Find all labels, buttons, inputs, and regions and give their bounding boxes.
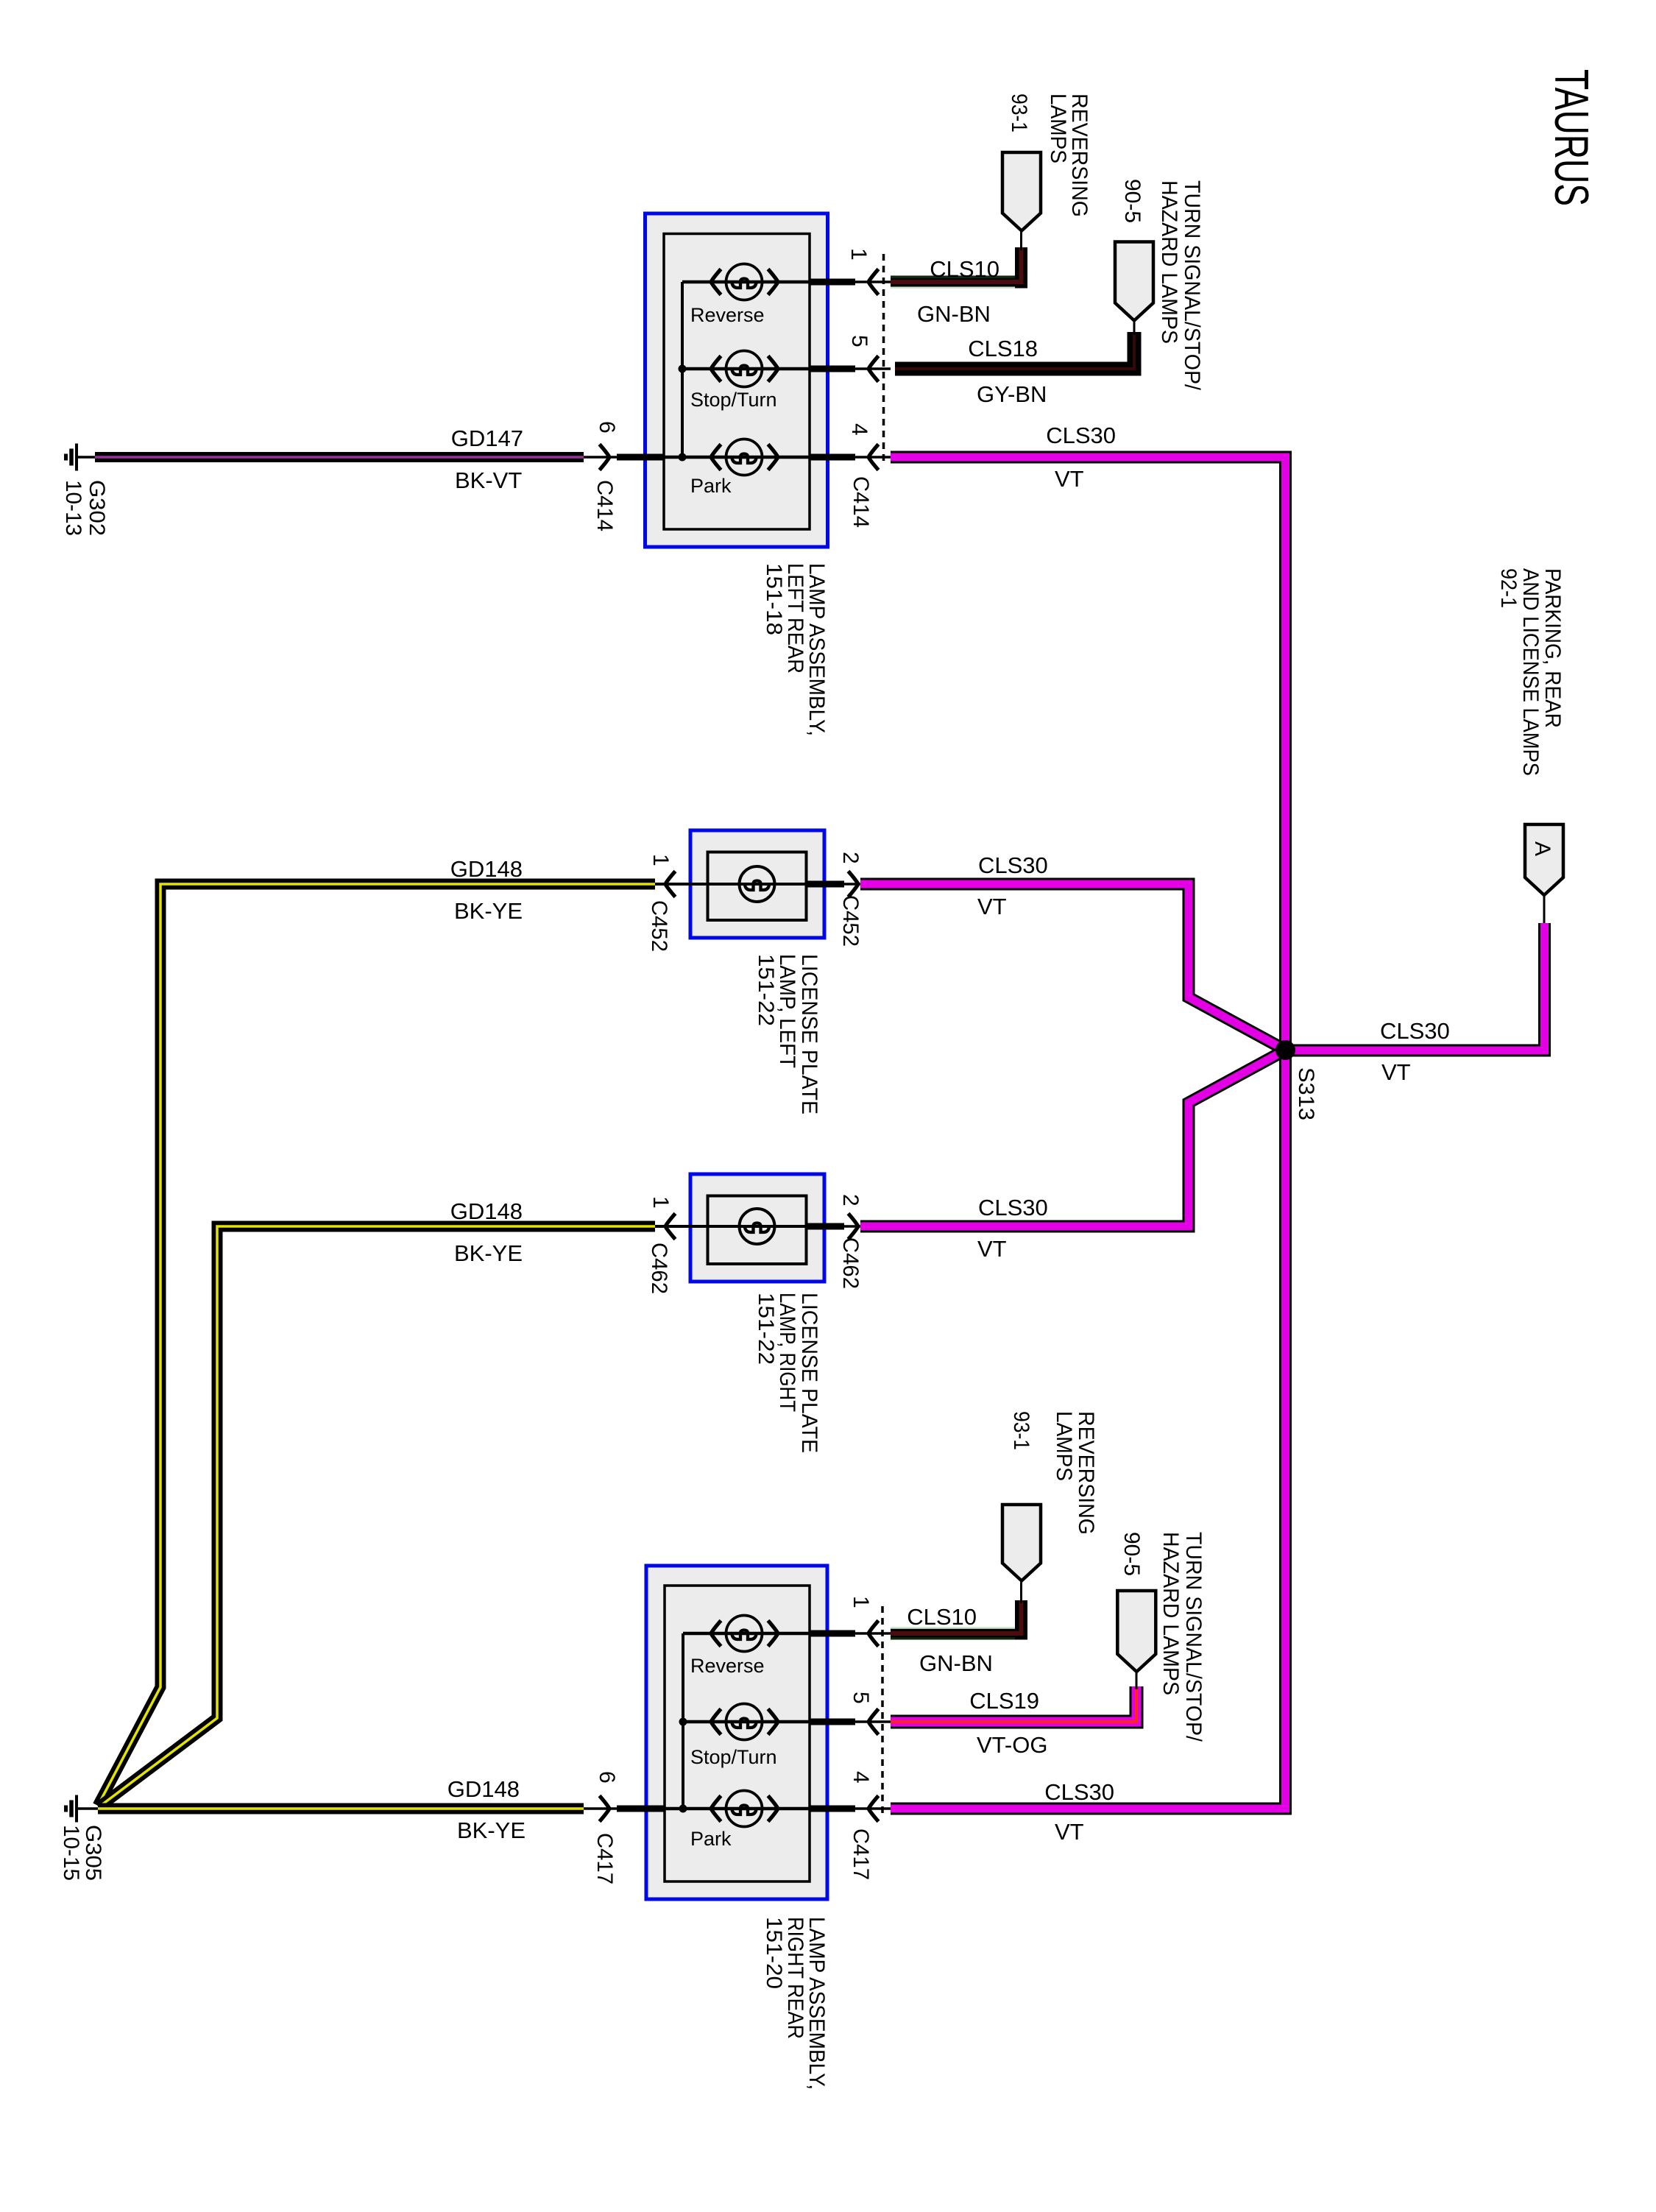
svg-text:C452: C452 xyxy=(838,895,863,947)
off-page banner REVERSING LAMPS 93-1 (top) xyxy=(1002,152,1041,231)
svg-text:CLS10: CLS10 xyxy=(907,1604,977,1630)
thin lead through connector C417 row stop/turn xyxy=(855,1720,891,1723)
svg-text:HAZARD LAMPS: HAZARD LAMPS xyxy=(1158,1532,1183,1695)
splice S313 dot xyxy=(1275,1040,1295,1060)
svg-text:BK-YE: BK-YE xyxy=(454,1240,523,1266)
ground label G302 10-13 xyxy=(61,480,109,536)
wire GD148 BK-YE from license lamp left to G305 xyxy=(98,884,655,1806)
off-page banner REVERSING LAMPS 93-1 (bottom) xyxy=(1002,1505,1041,1581)
pin stub stop/turn right side xyxy=(810,366,855,372)
svg-text:VT: VT xyxy=(1055,1819,1084,1845)
wire CLS10 green edge line (bottom) xyxy=(891,1627,1015,1629)
svg-text:2: 2 xyxy=(838,1194,863,1206)
thin lead through connector C414 row reverse xyxy=(855,280,891,283)
svg-text:CLS10: CLS10 xyxy=(930,256,999,282)
svg-text:Stop/Turn: Stop/Turn xyxy=(690,389,777,411)
svg-text:GD148: GD148 xyxy=(450,1198,523,1224)
svg-text:TAURUS: TAURUS xyxy=(1545,69,1599,206)
svg-text:4: 4 xyxy=(847,423,871,436)
ground G305 symbol xyxy=(66,1795,77,1823)
license plate lamp left: outer blue box xyxy=(690,830,824,938)
lamp assembly left rear: inner case rectangle xyxy=(664,234,810,530)
bulb stop/turn right arrow xyxy=(768,356,779,382)
license lamp left row line xyxy=(655,883,807,886)
svg-text:10-15: 10-15 xyxy=(59,1825,83,1881)
junction dot park (right rear) xyxy=(679,1805,687,1813)
bulb row line stop/turn (right rear) xyxy=(683,1720,810,1724)
svg-text:C414: C414 xyxy=(592,480,617,531)
connector arrow C417 pin row park xyxy=(868,1796,879,1822)
junction dot stop/turn (left rear) xyxy=(679,365,687,373)
lamp assembly left rear: outer blue box xyxy=(645,213,828,547)
bulb park right arrow (right rear) xyxy=(768,1796,779,1822)
connector arrow C462 pin 1 xyxy=(665,1214,676,1240)
svg-text:BK-VT: BK-VT xyxy=(455,467,522,493)
bulb license lamp left xyxy=(740,866,775,902)
bulb row line park (left rear) xyxy=(664,456,810,459)
bulb reverse left arrow (right rear) xyxy=(711,1621,721,1647)
svg-text:BK-YE: BK-YE xyxy=(457,1817,526,1843)
svg-text:1: 1 xyxy=(648,1196,673,1209)
pin stub C462 pin 2 xyxy=(807,1223,845,1230)
ground G302 symbol xyxy=(66,444,77,471)
license lamp right row line xyxy=(655,1225,807,1228)
bulb reverse left arrow xyxy=(711,269,721,295)
bulb park (right rear) xyxy=(726,1791,762,1827)
connector arrow C414 pin row stop/turn xyxy=(868,356,879,382)
svg-text:VT: VT xyxy=(977,1236,1007,1262)
svg-text:6: 6 xyxy=(595,1771,619,1784)
svg-text:GN-BN: GN-BN xyxy=(919,1650,993,1676)
svg-text:AND LICENSE LAMPS: AND LICENSE LAMPS xyxy=(1518,568,1543,776)
connector arrow C452 pin 1 xyxy=(665,872,676,897)
svg-text:5: 5 xyxy=(847,335,871,347)
junction dot stop/turn (right rear) xyxy=(679,1718,687,1726)
svg-text:GN-BN: GN-BN xyxy=(917,301,991,327)
internal bus wire joining bulbs (left rear) xyxy=(681,282,684,457)
connector arrow C417 pin row reverse xyxy=(868,1621,879,1647)
svg-text:1: 1 xyxy=(849,1596,873,1608)
svg-text:90-5: 90-5 xyxy=(1119,1532,1144,1576)
svg-text:151-20: 151-20 xyxy=(762,1917,786,1989)
thin lead through connector C417 row park xyxy=(855,1807,891,1810)
bulb stop/turn left arrow (right rear) xyxy=(711,1709,721,1735)
svg-text:S313: S313 xyxy=(1294,1067,1318,1120)
svg-text:TURN SIGNAL/STOP/: TURN SIGNAL/STOP/ xyxy=(1180,180,1204,391)
wire CLS10 GN-BN (right rear reversing feed) xyxy=(891,1600,1022,1633)
svg-text:CLS30: CLS30 xyxy=(978,852,1048,878)
svg-text:CLS30: CLS30 xyxy=(1044,1779,1114,1805)
svg-text:GD148: GD148 xyxy=(450,856,523,882)
bulb stop/turn (left rear) xyxy=(726,351,762,387)
svg-text:LAMPS: LAMPS xyxy=(1052,1411,1076,1481)
svg-text:C414: C414 xyxy=(849,476,873,528)
svg-text:5: 5 xyxy=(849,1692,873,1704)
bulb row line park (right rear) xyxy=(665,1807,810,1811)
bulb license lamp right xyxy=(740,1209,775,1244)
component label LAMP ASSEMBLY, RIGHT REAR 151-20 xyxy=(762,1917,829,2090)
label REVERSING LAMPS 93-1 (bottom) xyxy=(1009,1411,1098,1535)
svg-text:VT: VT xyxy=(1381,1059,1411,1085)
lamp assembly right rear: inner case rectangle xyxy=(665,1586,810,1881)
svg-text:Park: Park xyxy=(690,1828,732,1850)
bulb stop/turn left arrow xyxy=(711,356,721,382)
svg-text:BK-YE: BK-YE xyxy=(454,898,523,924)
label REVERSING LAMPS 93-1 (top) xyxy=(1007,93,1091,217)
pin stub stop/turn right side (right rear) xyxy=(810,1719,855,1725)
svg-text:6: 6 xyxy=(595,421,619,434)
svg-text:4: 4 xyxy=(849,1771,873,1784)
ground label G305 10-15 xyxy=(59,1825,105,1881)
bulb stop/turn right arrow (right rear) xyxy=(768,1709,779,1735)
svg-text:VT: VT xyxy=(977,894,1007,919)
bulb park left arrow xyxy=(711,445,721,470)
svg-text:10-13: 10-13 xyxy=(61,480,85,536)
connector arrow C462 pin 2 xyxy=(849,1214,859,1240)
lamp assembly right rear: outer blue box xyxy=(646,1566,827,1899)
svg-text:LICENSE PLATE: LICENSE PLATE xyxy=(797,954,821,1114)
label TURN SIGNAL/STOP/ HAZARD LAMPS 90-5 (top) xyxy=(1120,179,1204,391)
lead from turn signal banner to CLS18 xyxy=(1133,321,1136,336)
thin lead through connector C417 row reverse xyxy=(855,1632,891,1635)
wire CLS30 VT trunk: top park feed, vertical trunk, bottom park feed xyxy=(891,457,1286,1809)
connector C417 dashed mating line xyxy=(881,1606,884,1818)
component label LICENSE PLATE LAMP, RIGHT 151-22 xyxy=(754,1293,821,1453)
svg-text:VT-OG: VT-OG xyxy=(977,1732,1047,1758)
svg-text:CLS30: CLS30 xyxy=(1046,423,1116,448)
connector arrow C417 pin 6 xyxy=(600,1796,610,1822)
pin stub park right side xyxy=(810,454,855,461)
thin lead through connector C414 row stop/turn xyxy=(855,367,891,370)
component label LAMP ASSEMBLY, LEFT REAR 151-18 xyxy=(762,563,829,736)
wire CLS30 VT from license lamp right to splice S313 xyxy=(860,1050,1286,1227)
connector arrow C414 pin row park xyxy=(868,445,879,470)
svg-text:Stop/Turn: Stop/Turn xyxy=(690,1746,777,1768)
off-page banner A (parking rear and license lamps) xyxy=(1525,824,1563,895)
wire CLS30 VT from banner A to splice S313 xyxy=(1290,923,1545,1050)
svg-text:Reverse: Reverse xyxy=(690,304,765,326)
bulb park left arrow (right rear) xyxy=(711,1796,721,1822)
wire GD148 BK-YE from license lamp right to G305 xyxy=(99,1226,655,1807)
svg-text:90-5: 90-5 xyxy=(1120,179,1144,223)
component label LICENSE PLATE LAMP, LEFT 151-22 xyxy=(754,954,821,1114)
internal bus wire joining bulbs (right rear) xyxy=(682,1633,684,1809)
bulb park (left rear) xyxy=(726,439,762,476)
off-page banner TURN SIGNAL/STOP/HAZARD LAMPS 90-5 (bottom) xyxy=(1117,1591,1156,1672)
svg-text:93-1: 93-1 xyxy=(1009,1411,1033,1450)
svg-text:151-22: 151-22 xyxy=(754,954,778,1026)
bulb row line reverse (left rear) xyxy=(682,280,810,284)
connector arrow C414 pin row reverse xyxy=(868,269,879,295)
svg-text:REVERSING: REVERSING xyxy=(1074,1411,1098,1535)
svg-text:C462: C462 xyxy=(838,1237,863,1289)
svg-text:LAMPS: LAMPS xyxy=(1046,93,1070,163)
svg-text:CLS19: CLS19 xyxy=(969,1688,1039,1714)
connector arrow C452 pin 2 xyxy=(849,872,859,897)
wire GD148 BK-YE ground wire (right rear) xyxy=(98,1803,584,1815)
bulb row line reverse (right rear) xyxy=(683,1632,810,1636)
label PARKING, REAR AND LICENSE LAMPS 92-1 xyxy=(1496,568,1565,776)
connector arrow C414 pin 6 xyxy=(600,445,610,470)
bulb park right arrow xyxy=(768,445,779,470)
svg-text:93-1: 93-1 xyxy=(1007,93,1031,132)
svg-text:1: 1 xyxy=(846,248,871,261)
svg-text:C417: C417 xyxy=(592,1833,617,1884)
pin stub C452 pin 2 xyxy=(807,881,845,888)
pin 6 stub into box (left rear) xyxy=(584,456,664,459)
wire CLS18 GY-BN (left rear stop/turn feed) xyxy=(895,332,1134,369)
license plate lamp right: inner case rectangle xyxy=(708,1196,807,1265)
off-page banner TURN SIGNAL/STOP/HAZARD LAMPS 90-5 (top) xyxy=(1115,242,1153,321)
pin stub park right side (right rear) xyxy=(810,1806,855,1812)
svg-text:LICENSE PLATE: LICENSE PLATE xyxy=(797,1293,821,1453)
svg-text:CLS30: CLS30 xyxy=(1380,1018,1450,1044)
license plate lamp left: inner case rectangle xyxy=(708,852,807,921)
pin stub reverse right side (right rear) xyxy=(810,1630,855,1637)
ground G302 lead line xyxy=(77,456,97,459)
label TURN SIGNAL/STOP/ HAZARD LAMPS 90-5 (bottom) xyxy=(1119,1532,1206,1742)
svg-text:VT: VT xyxy=(1055,466,1084,492)
pin 6 stub into box (right rear) xyxy=(584,1807,665,1810)
svg-text:C417: C417 xyxy=(849,1828,873,1880)
svg-text:1: 1 xyxy=(648,854,673,866)
thin lead through connector C414 row park xyxy=(855,456,891,459)
svg-text:PARKING, REAR: PARKING, REAR xyxy=(1540,568,1565,728)
wire GD147 BK-VT ground wire (left rear) xyxy=(95,452,584,462)
wire CLS19 VT-OG (right rear stop/turn feed) xyxy=(891,1686,1136,1722)
connector C414 dashed mating line xyxy=(882,254,885,466)
lead from reversing lamps banner to CLS10 (bottom) xyxy=(1020,1581,1022,1604)
svg-text:CLS30: CLS30 xyxy=(978,1195,1048,1220)
pin stub reverse right side xyxy=(810,279,855,286)
svg-text:GY-BN: GY-BN xyxy=(977,381,1047,407)
wire CLS30 VT from license lamp left to splice S313 xyxy=(860,884,1286,1050)
bulb reverse right arrow xyxy=(768,269,779,295)
bulb stop/turn (right rear) xyxy=(726,1704,762,1740)
svg-text:GD148: GD148 xyxy=(447,1776,520,1802)
svg-text:A: A xyxy=(1530,841,1554,856)
svg-text:Park: Park xyxy=(690,475,732,497)
bulb reverse (left rear) xyxy=(726,264,762,300)
junction dot park (left rear) xyxy=(679,453,687,462)
svg-text:Reverse: Reverse xyxy=(690,1655,765,1677)
bulb reverse right arrow (right rear) xyxy=(768,1621,779,1647)
svg-text:C452: C452 xyxy=(647,900,671,952)
bulb reverse (right rear) xyxy=(726,1616,762,1652)
svg-text:92-1: 92-1 xyxy=(1496,568,1521,608)
svg-text:HAZARD LAMPS: HAZARD LAMPS xyxy=(1157,180,1181,344)
bulb row line stop/turn (left rear) xyxy=(682,367,810,371)
wire CLS10 GN-BN (left rear reversing feed) xyxy=(891,247,1022,282)
svg-text:G305: G305 xyxy=(81,1825,105,1881)
svg-text:2: 2 xyxy=(838,852,863,864)
svg-text:151-18: 151-18 xyxy=(762,563,786,635)
svg-text:C462: C462 xyxy=(647,1243,671,1294)
svg-text:GD147: GD147 xyxy=(451,425,523,451)
lead from turn signal banner to CLS19 xyxy=(1136,1672,1138,1689)
license plate lamp right: outer blue box xyxy=(690,1174,824,1282)
svg-text:151-22: 151-22 xyxy=(754,1293,778,1365)
connector arrow C417 pin row stop/turn xyxy=(868,1709,879,1735)
svg-text:CLS18: CLS18 xyxy=(968,336,1038,361)
ground G305 lead line xyxy=(77,1807,100,1810)
svg-text:G302: G302 xyxy=(85,480,109,536)
lead from reversing lamps banner to CLS10 xyxy=(1020,231,1022,251)
svg-text:TURN SIGNAL/STOP/: TURN SIGNAL/STOP/ xyxy=(1181,1532,1206,1742)
lead from banner A to CLS30 xyxy=(1543,895,1546,926)
wire CLS10 green edge line xyxy=(891,286,1015,289)
